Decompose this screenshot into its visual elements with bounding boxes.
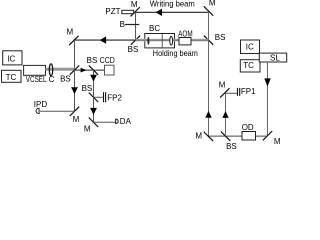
svg-text:TC: TC [243,61,254,70]
svg-text:IC: IC [7,55,15,64]
svg-text:B: B [120,20,125,29]
beam splitter BS2 [89,65,98,74]
arrow: down arrow between BS3 and M [90,108,97,115]
arrow: up arrow on right column [205,111,211,118]
svg-text:AOM: AOM [178,29,193,38]
svg-text:CCD: CCD [100,56,115,65]
arrow: right arrow after BS1 [81,68,87,73]
BC right lens [170,36,173,45]
mirror M (left, above VCSEL column) [69,36,78,45]
svg-text:IC: IC [246,43,254,52]
AOM box [179,38,191,45]
mirror M (bottom right) [263,131,272,140]
arrow: down arrow between BS1 and M-IPD [71,87,78,94]
svg-text:TC: TC [6,73,17,82]
svg-text:M: M [84,125,91,134]
wire: mirror to FP1 etalon [226,92,238,94]
wire: writing beam horizontal (top) [136,11,209,13]
svg-text:BS: BS [128,45,139,54]
detector IPD (semicircle) [36,108,39,113]
beam: gray VCSEL output beam [46,68,75,71]
svg-text:BS: BS [215,33,226,42]
beam splitter BS (right column) [204,35,213,44]
BC left small lens [147,37,149,45]
svg-text:DA: DA [120,117,132,126]
IC box (left) [3,51,22,65]
TC box (right) [240,60,260,72]
wire: vertical M-left down to BS1 [74,40,76,70]
svg-text:SL: SL [270,53,280,62]
svg-text:BS: BS [87,56,98,65]
wire: vertical BS1 down to mirror M (IPD) [74,70,76,111]
svg-text:IPD: IPD [34,100,48,109]
IC box (right) [241,40,260,54]
svg-text:M: M [131,0,138,9]
wire: bottom beam row [209,135,268,137]
wire: holding beam gray segment BS-left to BS-right [136,39,209,42]
BC box middle divider [161,34,163,47]
beam splitter BS (left, under PZT column) [131,35,140,44]
CCD box [105,65,115,75]
svg-text:BS: BS [226,142,237,151]
mirror M (PZT mirror, top middle) [131,7,140,16]
svg-text:M: M [274,137,281,146]
SL box (slave laser) [259,53,286,62]
svg-text:Writing beam: Writing beam [150,0,195,8]
svg-text:BC: BC [149,24,160,33]
wire: M to detector IPD [40,110,75,112]
arrow: holding beam left arrow [100,36,106,43]
mirror M (bottom left of right section) [204,132,213,141]
aperture B tick [125,24,139,26]
svg-text:M: M [195,132,202,141]
BC box (beam collimator) [145,34,175,48]
arrow: down arrow on SL output [264,78,270,86]
mirror M (to DA) [89,118,98,127]
svg-text:OD: OD [242,123,254,132]
wire: vertical BS-bottom up to mirror M (FP1) [225,93,227,136]
VCSEL box [24,65,46,75]
wire: vertical BS3 down to mirror M (DA) [93,97,95,122]
wire: main row BS1 to CCD [75,69,105,71]
detector DA (semicircle) [116,119,119,124]
etalon FP1 (two plates) [237,88,239,96]
beam splitter BS1 (VCSEL column) [70,65,79,74]
svg-text:FP1: FP1 [241,87,256,96]
svg-text:M: M [219,81,226,90]
wire: M to detector DA [94,121,116,123]
svg-text:Holding beam: Holding beam [153,49,198,58]
arrow: down arrow between BS2 and BS3 [90,75,97,82]
svg-text:BS: BS [60,74,71,83]
lens C [49,64,52,76]
svg-text:C: C [49,75,55,84]
wire: right main vertical column [208,12,210,136]
svg-text:PZT: PZT [105,7,120,16]
beam splitter BS (bottom) [221,131,230,140]
mirror M (to IPD) [70,107,79,116]
mirror M (top right) [204,6,213,15]
wire: holding beam dark segment mirror M to BS-left [75,39,136,41]
svg-text:M: M [209,0,216,8]
TC box (left) [2,70,22,82]
svg-text:BS: BS [82,84,93,93]
svg-text:M: M [73,115,80,124]
etalon FP2 (two plates) [103,92,105,102]
PZT actuator box [122,10,134,13]
OD box [242,132,256,141]
wire: SL output vertical down [267,62,269,136]
arrow: writing beam left arrow [156,9,162,16]
svg-text:FP2: FP2 [107,94,122,103]
wire: vertical from PZT mirror down to BS-left [135,12,137,40]
wire: vertical BS2 down to BS3 [93,70,95,97]
svg-text:VCSEL: VCSEL [26,75,47,84]
arrow: up arrow to FP1 mirror [222,111,228,118]
mirror M (FP1) [220,88,229,97]
wire: BS3 to FP2 etalon [94,96,103,98]
svg-text:M: M [66,27,73,36]
beam splitter BS3 [89,93,98,102]
